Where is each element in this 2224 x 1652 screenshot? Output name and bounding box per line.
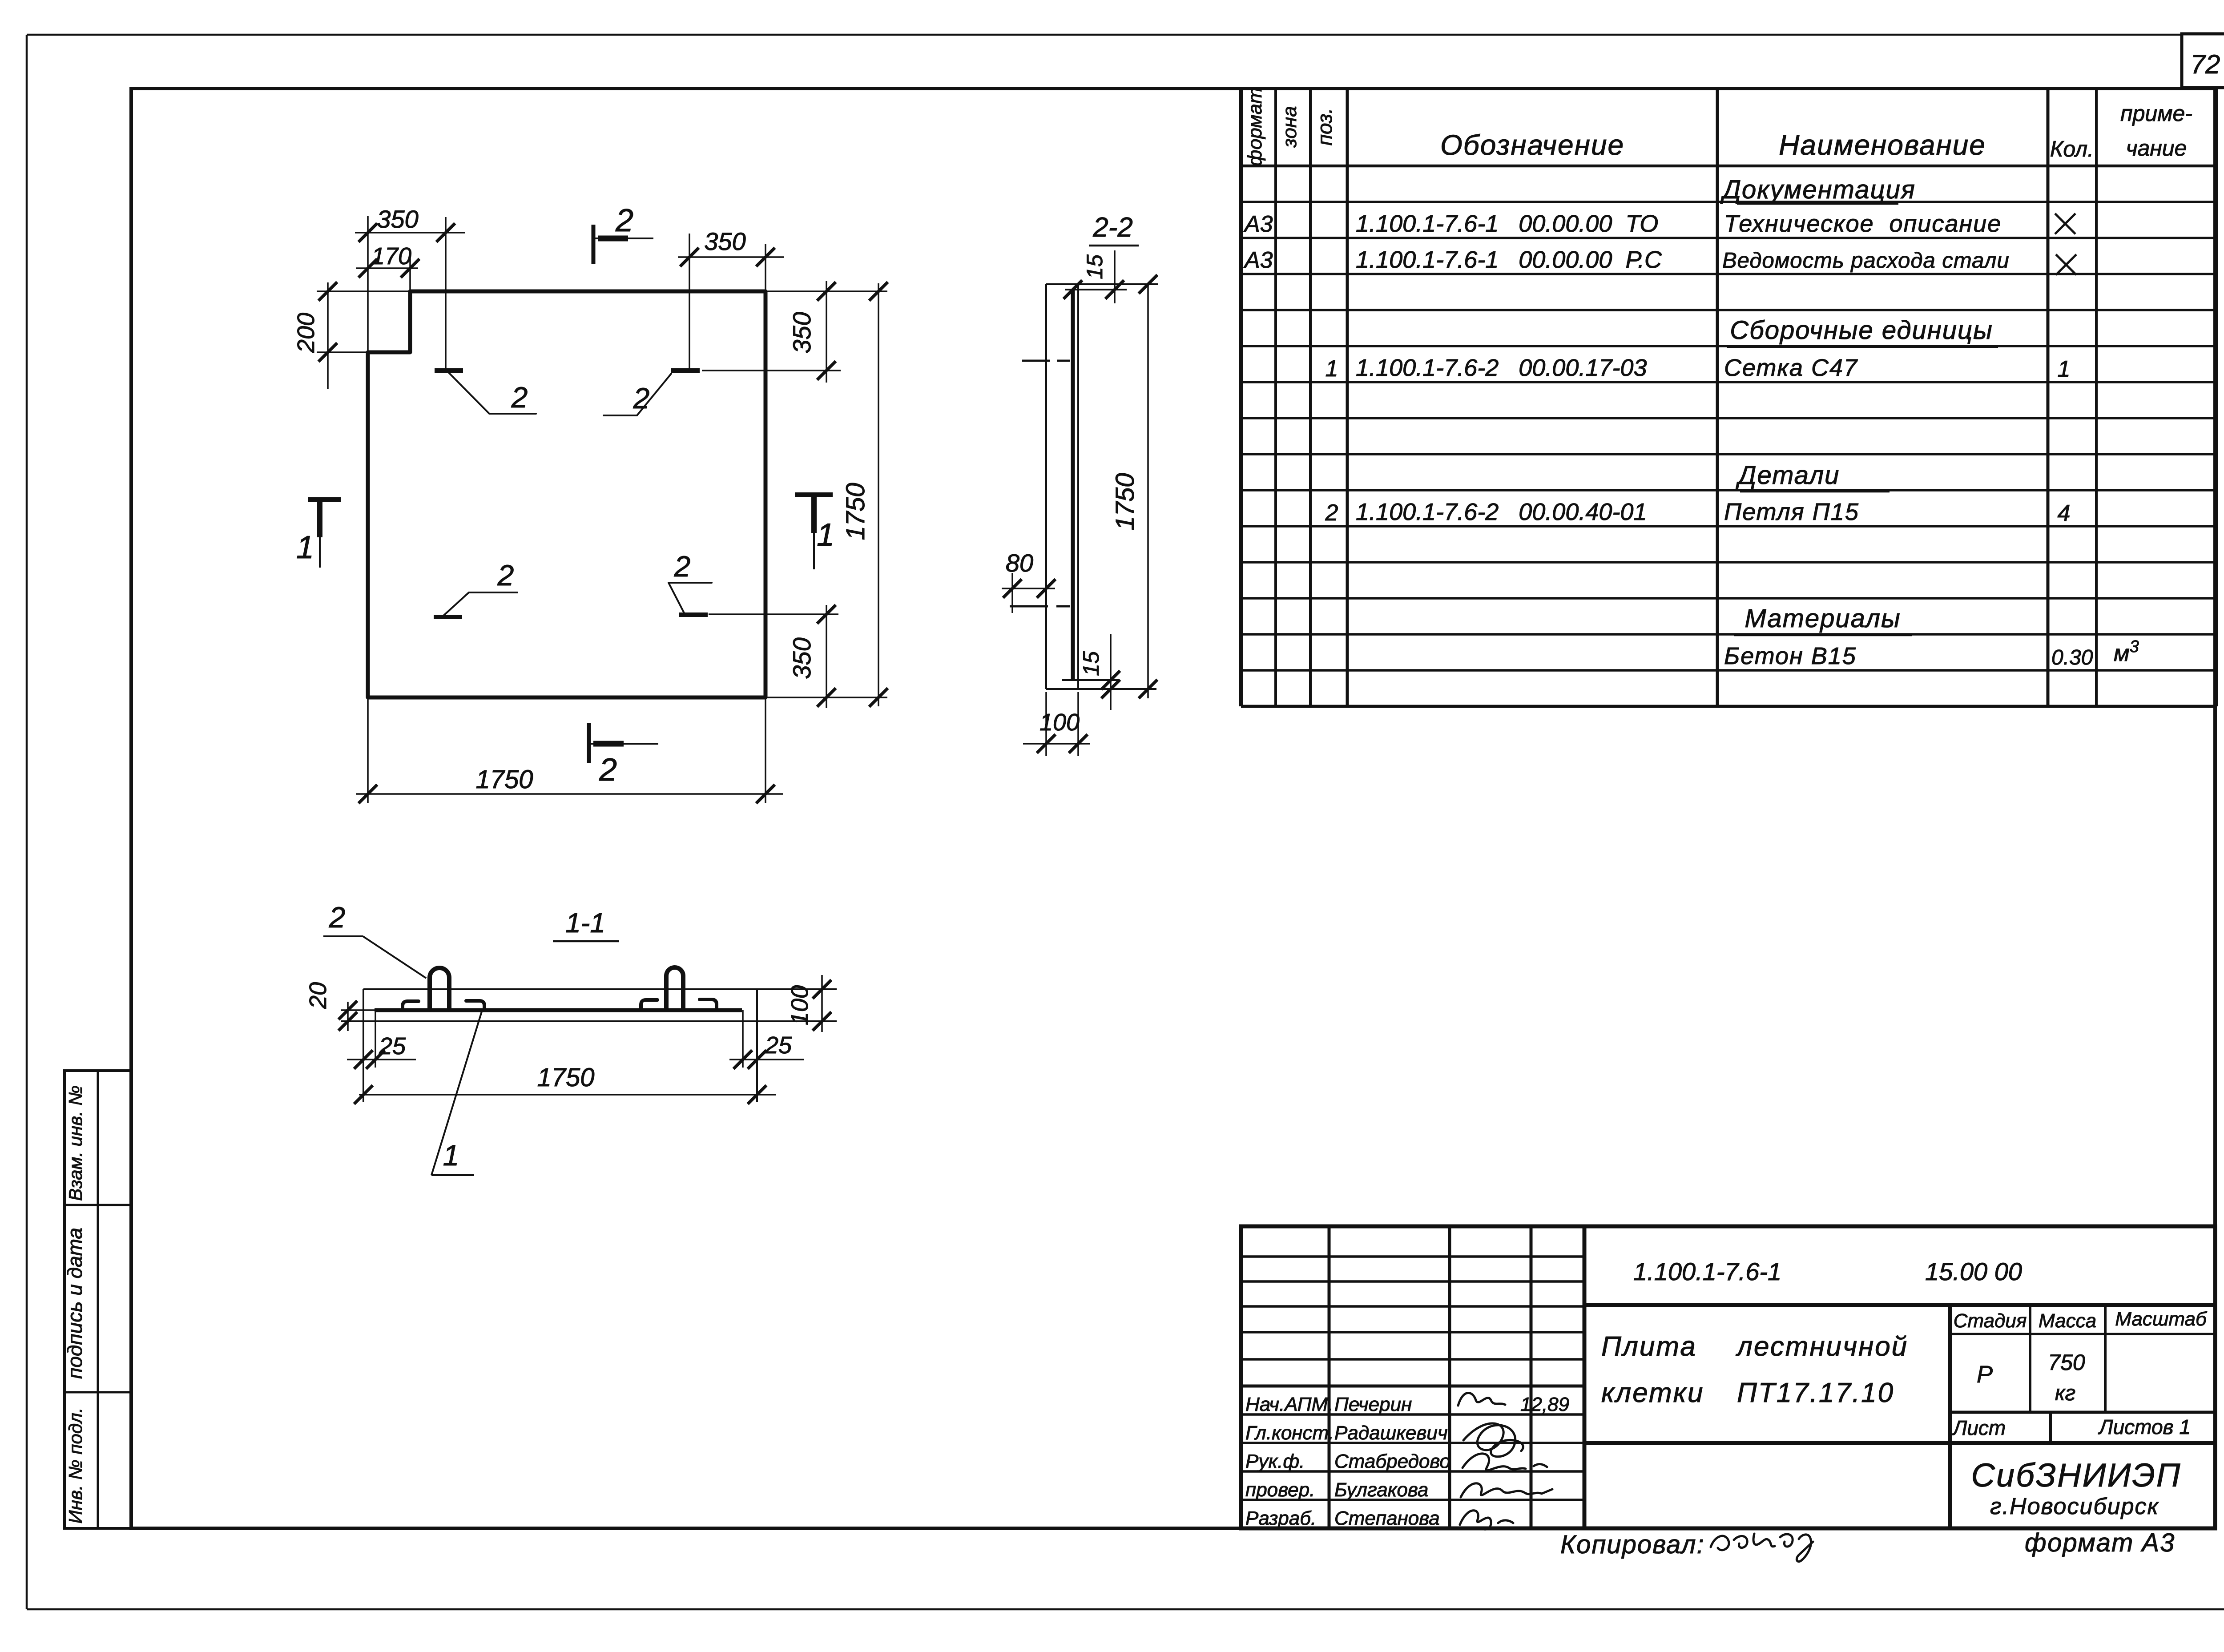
svg-text:1.100.1-7.6-2 00.00.17-03: 1.100.1-7.6-2 00.00.17-03 <box>1356 355 1647 381</box>
svg-text:2: 2 <box>511 381 528 414</box>
svg-text:15.00 00: 15.00 00 <box>1925 1257 2022 1285</box>
svg-text:15: 15 <box>1079 651 1104 676</box>
svg-text:Детали: Детали <box>1736 461 1840 490</box>
svg-text:Листов 1: Листов 1 <box>2098 1415 2191 1438</box>
svg-text:1750: 1750 <box>475 765 533 794</box>
svg-text:А3: А3 <box>1243 247 1273 273</box>
svg-text:кг: кг <box>2055 1382 2075 1405</box>
svg-text:СибЗНИИЭП: СибЗНИИЭП <box>1971 1457 2182 1494</box>
svg-text:20: 20 <box>305 982 331 1009</box>
svg-text:Печерин: Печерин <box>1334 1394 1412 1415</box>
svg-text:0.30: 0.30 <box>2051 646 2093 669</box>
svg-text:350: 350 <box>704 227 745 255</box>
svg-text:Радашкевич: Радашкевич <box>1334 1422 1448 1444</box>
svg-text:Петля П15: Петля П15 <box>1724 499 1859 525</box>
svg-text:1: 1 <box>443 1139 459 1172</box>
svg-text:Копировал:: Копировал: <box>1560 1530 1705 1559</box>
svg-text:2: 2 <box>615 203 633 238</box>
svg-text:750: 750 <box>2048 1350 2085 1375</box>
svg-text:Стабредово: Стабредово <box>1334 1451 1450 1472</box>
svg-text:Плита: Плита <box>1601 1331 1697 1362</box>
svg-text:80: 80 <box>1006 549 1033 577</box>
svg-text:Наименование: Наименование <box>1779 129 1986 161</box>
svg-text:поз.: поз. <box>1313 108 1336 146</box>
svg-text:100: 100 <box>1039 709 1080 736</box>
svg-text:Кол.: Кол. <box>2050 137 2094 161</box>
svg-text:2: 2 <box>633 382 650 415</box>
svg-text:формат: формат <box>1244 88 1266 166</box>
svg-text:Взам. инв. №: Взам. инв. № <box>65 1085 86 1201</box>
svg-text:Ведомость расхода стали: Ведомость расхода стали <box>1722 249 2010 273</box>
svg-text:г.Новосибирск: г.Новосибирск <box>1990 1494 2159 1519</box>
svg-text:1.100.1-7.6-1 00.00.00 ТО: 1.100.1-7.6-1 00.00.00 ТО <box>1356 210 1658 237</box>
svg-text:15: 15 <box>1082 254 1107 279</box>
svg-text:провер.: провер. <box>1245 1479 1315 1501</box>
svg-text:клетки: клетки <box>1601 1378 1704 1408</box>
svg-text:1-1: 1-1 <box>565 908 605 939</box>
svg-text:Бетон В15: Бетон В15 <box>1724 643 1857 669</box>
svg-text:1.100.1-7.6-2 00.00.40-01: 1.100.1-7.6-2 00.00.40-01 <box>1356 499 1647 525</box>
svg-text:Сетка С47: Сетка С47 <box>1724 355 1858 381</box>
svg-text:зона: зона <box>1279 106 1301 148</box>
svg-text:Стадия: Стадия <box>1954 1310 2027 1332</box>
svg-text:1: 1 <box>2058 356 2071 382</box>
svg-text:170: 170 <box>371 243 411 270</box>
svg-text:1: 1 <box>296 530 314 565</box>
svg-text:Разраб.: Разраб. <box>1245 1507 1316 1529</box>
svg-text:1750: 1750 <box>841 483 870 540</box>
svg-text:100: 100 <box>786 985 813 1025</box>
svg-text:2: 2 <box>329 901 346 934</box>
svg-text:2: 2 <box>497 559 514 592</box>
svg-text:2: 2 <box>674 550 691 583</box>
svg-text:приме-: приме- <box>2120 101 2192 126</box>
svg-text:Гл.конст.: Гл.конст. <box>1245 1422 1334 1444</box>
svg-text:Рук.ф.: Рук.ф. <box>1245 1451 1305 1472</box>
svg-text:25: 25 <box>379 1033 406 1060</box>
svg-text:Техническое описание: Техническое описание <box>1724 210 2002 237</box>
svg-text:подпись и дата: подпись и дата <box>63 1228 86 1379</box>
svg-text:1.100.1-7.6-1: 1.100.1-7.6-1 <box>1633 1257 1781 1285</box>
svg-text:Лист: Лист <box>1952 1416 2006 1439</box>
svg-text:72: 72 <box>2191 49 2220 79</box>
svg-text:1750: 1750 <box>1111 473 1140 530</box>
svg-text:Р: Р <box>1977 1361 1993 1388</box>
svg-text:Масса: Масса <box>2039 1310 2096 1332</box>
svg-text:Масштаб: Масштаб <box>2115 1308 2208 1330</box>
svg-text:Инв. № подл.: Инв. № подл. <box>65 1408 86 1524</box>
svg-text:2: 2 <box>599 752 617 788</box>
svg-text:200: 200 <box>293 313 319 353</box>
svg-text:350: 350 <box>788 637 816 679</box>
svg-text:350: 350 <box>788 312 816 353</box>
svg-text:1: 1 <box>1326 356 1338 382</box>
svg-text:А3: А3 <box>1243 211 1273 237</box>
svg-text:ПТ17.17.10: ПТ17.17.10 <box>1737 1378 1894 1408</box>
svg-text:лестничной: лестничной <box>1736 1331 1908 1362</box>
svg-text:Обозначение: Обозначение <box>1440 129 1624 161</box>
svg-text:12,89: 12,89 <box>1520 1394 1569 1415</box>
svg-text:1: 1 <box>817 517 834 553</box>
svg-text:Булгакова: Булгакова <box>1334 1479 1428 1501</box>
svg-text:2-2: 2-2 <box>1092 212 1133 243</box>
svg-text:1.100.1-7.6-1 00.00.00 Р.С: 1.100.1-7.6-1 00.00.00 Р.С <box>1356 246 1662 273</box>
svg-text:1750: 1750 <box>537 1063 594 1092</box>
svg-text:Сборочные единицы: Сборочные единицы <box>1730 316 1993 345</box>
svg-text:Нач.АПМ.: Нач.АПМ. <box>1245 1394 1333 1415</box>
svg-text:формат А3: формат А3 <box>2025 1528 2175 1557</box>
svg-text:Материалы: Материалы <box>1745 604 1901 633</box>
svg-text:2: 2 <box>1325 500 1338 526</box>
svg-text:Степанова: Степанова <box>1334 1507 1440 1529</box>
svg-text:чание: чание <box>2126 136 2187 161</box>
svg-text:Документация: Документация <box>1720 175 1916 204</box>
svg-text:4: 4 <box>2058 500 2071 526</box>
svg-text:350: 350 <box>377 205 418 233</box>
svg-text:25: 25 <box>765 1032 792 1059</box>
